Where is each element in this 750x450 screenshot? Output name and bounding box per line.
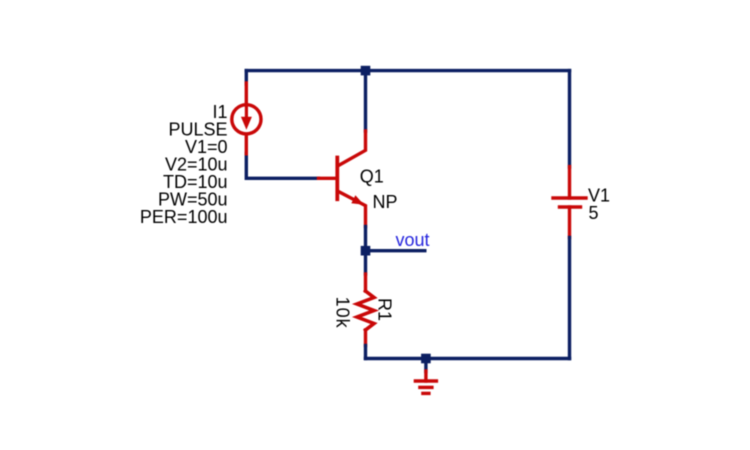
node top junction square <box>361 66 371 76</box>
current source I1 arrow head <box>241 117 252 130</box>
wire: below resistor to bottom rail <box>364 346 367 359</box>
wire: emitter vertical down to resistor <box>364 227 367 275</box>
node vout junction square <box>361 246 371 256</box>
svg-text:5: 5 <box>589 203 599 223</box>
voltage source V1 top lead <box>568 167 571 198</box>
transistor Q1 base lead <box>319 177 337 180</box>
ground bar 1 <box>415 379 436 382</box>
wire: right vertical upper above V1 <box>568 71 571 167</box>
resistor R1 bottom lead <box>364 330 367 346</box>
ground symbol lead <box>424 371 427 381</box>
wire: left vertical below I1 and horizontal to Q1 base <box>246 154 318 179</box>
ground bar 3 <box>423 392 429 395</box>
node ground junction square <box>421 354 431 364</box>
voltage source V1 long plate <box>553 196 586 199</box>
resistor R1 zigzag <box>357 291 374 330</box>
wire: bottom rail <box>366 357 570 360</box>
resistor R1 top lead <box>364 274 367 291</box>
current source I1 arrow shaft <box>245 107 248 119</box>
transistor Q1 collector lead <box>338 131 366 166</box>
current source I1 circle <box>232 105 261 134</box>
transistor Q1 emitter lead <box>338 191 366 226</box>
current source I1 top lead <box>245 83 248 105</box>
ground bar 2 <box>420 386 432 389</box>
wire: collector vertical from top rail to Q1 <box>364 71 367 131</box>
svg-text:vout: vout <box>396 230 430 250</box>
svg-text:R1: R1 <box>375 298 395 321</box>
svg-text:10k: 10k <box>333 297 353 329</box>
svg-text:NP: NP <box>373 192 398 212</box>
wire: left vertical upper stub above I1 <box>245 71 248 84</box>
voltage source V1 bottom lead <box>568 207 571 238</box>
transistor Q1 emitter arrow head <box>351 195 364 205</box>
wire: ground stub <box>424 359 427 372</box>
svg-text:Q1: Q1 <box>360 167 384 187</box>
svg-text:PER=100u: PER=100u <box>140 207 228 227</box>
transistor Q1 base bar <box>335 158 339 200</box>
wire: vout stub to the right <box>366 249 425 252</box>
wire: top rail from I1 to V1 <box>246 69 569 72</box>
voltage source V1 short plate <box>560 205 581 208</box>
wire: right vertical lower below V1 <box>568 238 571 359</box>
current source I1 bottom lead <box>245 134 248 154</box>
